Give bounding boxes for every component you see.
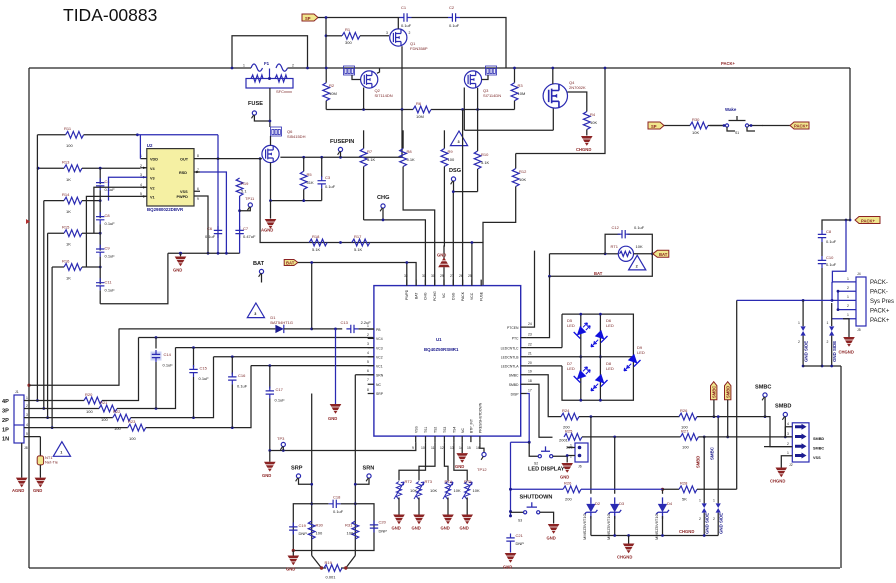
ground GND above U1 [437,253,450,286]
wire Q6 drain row 200.6 [269,199,322,202]
svg-text:DNP: DNP [379,529,388,534]
resistor R26s [679,408,792,447]
svg-text:R10: R10 [481,152,489,157]
svg-text:SMBD: SMBD [509,383,519,387]
switch S2 LED DISPLAY [511,441,568,473]
wire frame right upper [849,68,851,220]
svg-text:1: 1 [60,451,62,455]
svg-text:R9: R9 [448,149,454,154]
svg-text:5: 5 [26,432,28,436]
test point DSG [449,168,461,192]
svg-text:1: 1 [699,499,701,503]
svg-text:PTC: PTC [512,336,519,340]
svg-text:10K: 10K [636,244,643,249]
svg-text:R31: R31 [345,523,353,528]
svg-text:BAT: BAT [253,261,265,267]
svg-text:3: 3 [787,432,789,436]
svg-text:SRP: SRP [291,466,303,472]
svg-text:PRES/SHUTDOWN: PRES/SHUTDOWN [479,402,483,433]
svg-text:R7: R7 [367,149,373,154]
resistor R31 [345,521,359,539]
svg-text:SI7114DN: SI7114DN [375,93,393,98]
resistor R18 [309,234,327,252]
svg-text:GND SIDE: GND SIDE [719,513,724,534]
svg-text:4P: 4P [2,399,9,405]
svg-text:3: 3 [458,140,460,144]
svg-text:LED: LED [606,366,614,371]
svg-text:6: 6 [197,187,199,191]
wire PACK column [462,110,464,286]
svg-text:C4: C4 [105,179,111,184]
svg-text:GND SIDE: GND SIDE [705,513,710,534]
svg-text:PACK-: PACK- [870,280,888,286]
svg-text:GND: GND [286,567,295,572]
svg-text:PACK+: PACK+ [870,318,890,324]
wire R18R17 row [259,157,483,285]
resistor R17 [352,234,370,252]
svg-text:5: 5 [140,192,142,196]
resistor R1 [326,27,389,45]
IC U2 [140,143,200,212]
svg-text:19: 19 [528,370,532,374]
marker red left [26,219,30,224]
svg-text:9: 9 [412,446,414,450]
triangle warning 3 top [450,131,467,146]
svg-text:PACK: PACK [461,291,465,301]
test point TP3 [277,436,285,451]
svg-text:C1: C1 [401,5,407,10]
svg-text:C16: C16 [238,373,246,378]
ground AGND J1 [12,443,28,493]
svg-text:VC2: VC2 [376,356,383,360]
svg-text:9: 9 [197,197,199,201]
svg-text:26: 26 [459,274,463,278]
ground GND U1vss [455,442,468,469]
svg-text:GND: GND [328,416,337,421]
svg-text:TS2: TS2 [434,427,438,433]
triangle warning 3b [247,303,264,318]
svg-text:S3: S3 [518,519,522,523]
svg-text:VCC: VCC [470,292,474,300]
wire VC3 row [176,346,374,349]
ferrite bead FB1 GND SIDE [798,300,809,366]
svg-text:100: 100 [316,531,323,536]
svg-text:R19: R19 [241,181,249,186]
resistor R27 [680,429,792,450]
svg-text:J6: J6 [578,465,582,469]
wire DSG row [452,190,478,285]
svg-text:0.1uF: 0.1uF [105,254,116,259]
test point SMBC [755,385,771,417]
svg-text:C19: C19 [299,523,307,528]
svg-text:R3: R3 [518,83,524,88]
wire bead bottom rail [802,365,841,368]
IC U1 top pins [404,274,483,301]
wire F1 to Q6 [269,88,272,127]
wire V1 [86,196,146,267]
svg-text:2: 2 [827,340,829,344]
wire SMBC drop [527,375,561,417]
ferrite bead FB2 GND SIDE [827,303,838,366]
capacitor C14 [151,338,174,409]
svg-text:Net-Tie: Net-Tie [45,460,59,465]
svg-text:C11: C11 [105,279,113,284]
svg-text:V3: V3 [150,176,155,180]
wire frame bottom [29,567,840,569]
svg-text:TS1: TS1 [424,427,428,433]
svg-text:1: 1 [713,499,715,503]
svg-text:C7: C7 [243,226,249,231]
svg-text:VSS: VSS [414,425,418,433]
svg-text:BAT: BAT [414,293,418,299]
resistor R25 [564,429,787,450]
ground GND shunt [286,551,299,572]
test point TP11 [240,196,255,211]
svg-text:PB: PB [376,328,381,332]
svg-text:10K: 10K [454,488,461,493]
flag BAT right [653,250,669,257]
svg-text:CHGND: CHGND [679,529,694,534]
connector J6 2001 [559,438,588,469]
svg-text:0.1uF: 0.1uF [199,376,210,381]
svg-text:R17: R17 [354,234,362,239]
svg-text:CHG: CHG [424,292,428,300]
wire SRP col [310,394,313,556]
svg-text:1K: 1K [66,242,71,247]
test point SRP [291,466,312,485]
svg-text:GND SIDE: GND SIDE [832,341,837,362]
svg-text:BAT: BAT [286,261,295,266]
ground GND C21 [503,553,516,570]
svg-text:3: 3 [254,312,256,316]
svg-text:R18: R18 [312,234,320,239]
capacitor C6 [205,226,222,239]
ground CHGND J4 [839,319,855,355]
svg-text:SMBC: SMBC [712,386,717,398]
svg-text:C17: C17 [276,387,284,392]
svg-text:2: 2 [713,517,715,521]
svg-text:SMBD: SMBD [726,386,731,398]
wire PTC column [527,276,550,337]
wire V3 blue [109,177,147,200]
svg-text:2: 2 [847,286,849,290]
svg-text:C8: C8 [826,229,832,234]
resistor R10 [474,110,489,192]
svg-text:GND: GND [412,526,421,531]
capacitor C8 right [818,220,850,256]
wire V2 [94,187,147,233]
connector J5 [764,422,824,468]
svg-text:R26: R26 [680,408,688,413]
capacitor C2 [448,5,506,68]
svg-text:PACK+: PACK+ [861,219,876,224]
svg-text:4: 4 [367,351,369,355]
svg-text:GND: GND [173,268,182,273]
svg-text:12: 12 [440,446,444,450]
test point CHG [377,195,389,220]
resistor R24 [561,408,766,430]
svg-text:0.1uF: 0.1uF [275,398,286,403]
svg-text:BTP_INT: BTP_INT [470,419,474,433]
svg-text:GND: GND [460,526,469,531]
svg-text:DNP: DNP [299,531,308,536]
svg-text:R6: R6 [416,101,422,106]
svg-text:SI5415DH: SI5415DH [287,134,306,139]
capacitor C10 right [818,255,837,366]
svg-text:DISP: DISP [511,392,520,396]
svg-text:22: 22 [528,343,532,347]
svg-text:J4: J4 [857,272,861,276]
svg-text:1: 1 [847,277,849,281]
svg-text:VC1: VC1 [376,364,383,368]
svg-text:7: 7 [367,378,369,382]
svg-text:24: 24 [528,322,532,326]
svg-text:1: 1 [26,396,28,400]
svg-text:GND: GND [262,473,271,478]
svg-text:V1: V1 [150,195,155,199]
svg-text:5.1K: 5.1K [407,157,416,162]
svg-text:1: 1 [827,321,829,325]
svg-text:10K: 10K [473,488,480,493]
svg-text:PACK-: PACK- [870,290,888,296]
svg-text:25: 25 [468,274,472,278]
svg-text:0.47uF: 0.47uF [243,234,256,239]
wire frame top rail [29,67,850,69]
svg-text:5.1K: 5.1K [354,247,363,252]
resistor R8 [400,130,435,285]
svg-text:GND SIDE: GND SIDE [804,341,809,362]
flag PACK+ right [845,217,880,224]
test point SRN [355,466,374,485]
capacitor C20 [370,520,387,534]
wire PACK+ blue drop [832,220,846,283]
svg-text:0.1uF: 0.1uF [105,287,116,292]
svg-text:GND: GND [33,488,42,493]
capacitor C21 [506,533,524,553]
resistor R14 [44,192,102,214]
svg-text:2: 2 [570,455,572,459]
svg-text:100: 100 [347,531,354,536]
svg-text:DNP: DNP [516,541,525,546]
svg-text:R5: R5 [307,172,313,177]
svg-text:VSS: VSS [180,190,188,194]
svg-text:LED: LED [567,323,575,328]
svg-text:30: 30 [431,274,435,278]
wire SRN col [354,375,374,556]
capacitor C11 [96,267,115,304]
resistor R2 [323,67,337,110]
LED D7 [567,361,590,383]
svg-text:MMSZ5V6T1G: MMSZ5V6T1G [582,513,587,540]
thermistor RT2 [392,442,426,530]
svg-text:J8: J8 [24,446,28,450]
resistor R3 [511,67,525,110]
svg-text:300: 300 [345,40,352,45]
wire zener rail CHGND [591,513,718,560]
svg-text:0.1uF: 0.1uF [826,239,837,244]
svg-text:TP11: TP11 [245,196,255,201]
svg-text:3: 3 [26,413,28,417]
switch S3 SHUTDOWN [511,495,554,524]
svg-text:0.001: 0.001 [326,575,337,580]
svg-text:VDD: VDD [150,158,158,162]
svg-text:SMBC: SMBC [813,447,824,451]
svg-text:1: 1 [243,64,245,68]
svg-text:GND: GND [441,526,450,531]
wire LEDCNTLA [527,365,562,367]
svg-text:R23: R23 [128,419,136,424]
wire SHUTDOWN net [509,442,563,517]
resistor R4 [583,112,597,136]
svg-text:CHGND: CHGND [770,479,785,484]
svg-text:D4: D4 [667,501,673,506]
capacitor C1 [400,5,449,28]
flag SP [302,14,400,21]
svg-text:R12: R12 [519,169,527,174]
svg-text:TP12: TP12 [477,467,487,472]
svg-text:LED DISPLAY: LED DISPLAY [528,467,565,473]
wire OUT drop [200,135,262,254]
svg-text:C12: C12 [612,225,620,230]
resistor R15 [48,225,102,247]
svg-text:R13: R13 [62,160,70,165]
capacitor C13 [312,320,374,333]
svg-text:LED: LED [637,350,645,355]
svg-text:6: 6 [367,369,369,373]
svg-text:LEDCNTLA: LEDCNTLA [501,365,519,369]
wire SMBD col down [615,437,705,504]
ground GND S2 [560,463,573,480]
svg-text:V2: V2 [150,186,155,190]
svg-text:1K: 1K [66,177,71,182]
ground CHGND under R4 [576,136,593,152]
svg-text:BQ2980022DBVR: BQ2980022DBVR [147,207,184,212]
svg-text:2.2uF: 2.2uF [361,320,372,325]
svg-text:0.1uF: 0.1uF [634,225,645,230]
svg-text:1N: 1N [2,437,9,443]
ground AGND [261,201,276,233]
svg-text:0.1uF: 0.1uF [163,363,174,368]
svg-text:SMBD: SMBD [813,437,824,441]
ground GND C13 [328,329,341,421]
LED D9 [624,345,645,371]
svg-text:BAT: BAT [594,271,603,276]
wire Sys Pres net [737,299,832,489]
resistor R23 [52,366,251,441]
svg-text:TS3: TS3 [443,427,447,433]
svg-text:100: 100 [114,426,121,431]
svg-text:10M: 10M [416,114,424,119]
LED D6 [591,318,614,347]
svg-text:10K: 10K [430,488,437,493]
svg-text:S1: S1 [735,131,739,135]
svg-text:TS4: TS4 [453,427,457,433]
svg-text:DSG: DSG [452,292,456,300]
svg-text:SI7114DN: SI7114DN [483,93,501,98]
svg-text:2N7002K: 2N7002K [569,85,586,90]
svg-text:VSS: VSS [813,456,821,460]
svg-text:10M: 10M [329,91,337,96]
svg-text:PWPD: PWPD [405,289,409,300]
wire DISP drop [527,394,529,443]
ground GND rail U2 [168,252,240,273]
svg-text:2: 2 [26,404,28,408]
svg-text:R30: R30 [316,523,324,528]
svg-text:1: 1 [798,321,800,325]
svg-text:4: 4 [26,423,28,427]
svg-text:R19: R19 [325,560,333,565]
wire Q4col to RT1 [604,153,606,155]
svg-text:S2: S2 [534,462,538,466]
triangle warning 2 [629,255,646,270]
svg-text:2P: 2P [2,418,9,424]
transistor Q3 [464,66,501,130]
resistor R19 shunt [312,556,356,580]
svg-text:LEDCNTLC: LEDCNTLC [501,346,519,350]
svg-text:1: 1 [847,295,849,299]
svg-text:LED: LED [606,323,614,328]
svg-text:R24: R24 [562,408,570,413]
LED D8 [591,361,614,391]
svg-text:2: 2 [409,31,411,35]
wire SMBD drop [527,384,553,437]
capacitor C19 [289,523,307,537]
svg-text:R14: R14 [62,192,70,197]
wire Q4 column [516,67,607,154]
svg-text:0.1uF: 0.1uF [401,23,412,28]
ferrite bead FB4 [710,446,724,534]
svg-text:R15: R15 [62,225,70,230]
wire VC4 row [139,336,374,339]
svg-text:VC3: VC3 [376,346,383,350]
svg-text:AGND: AGND [261,228,273,233]
svg-text:FUSE: FUSE [479,291,483,301]
svg-text:3: 3 [140,173,142,177]
IC U1 bottom pins [412,402,483,450]
wire BAT net row [548,254,652,278]
resistor R28 [663,481,737,502]
thermistor RT5 [454,442,480,530]
svg-text:PACK+: PACK+ [794,124,809,129]
svg-text:10: 10 [421,446,425,450]
svg-text:J1: J1 [15,390,19,394]
svg-text:4: 4 [787,422,789,426]
svg-text:DSG: DSG [449,168,461,174]
wire ladder bottom [100,253,168,304]
wire frame right lower [840,366,842,568]
wire row 157.3 [280,110,402,159]
LED array frame [527,313,634,402]
svg-text:C6: C6 [207,226,213,231]
resistor R26 [563,481,663,502]
svg-text:SRN: SRN [376,373,384,377]
svg-text:1: 1 [787,451,789,455]
svg-text:C10: C10 [826,255,834,260]
resistor R21 [44,348,176,422]
thermistor RT1 [604,244,654,261]
ground CHGND J5 [770,468,787,484]
svg-text:C20: C20 [379,520,387,525]
svg-text:VC4: VC4 [376,337,383,341]
svg-text:AGND: AGND [12,488,24,493]
svg-text:0.1uF: 0.1uF [237,384,248,389]
svg-text:5.1K: 5.1K [367,157,376,162]
svg-text:R21: R21 [100,400,108,405]
flag SP wake [648,122,664,129]
svg-text:100: 100 [129,436,136,441]
svg-text:C13: C13 [341,320,349,325]
svg-text:0.1uF: 0.1uF [325,184,336,189]
